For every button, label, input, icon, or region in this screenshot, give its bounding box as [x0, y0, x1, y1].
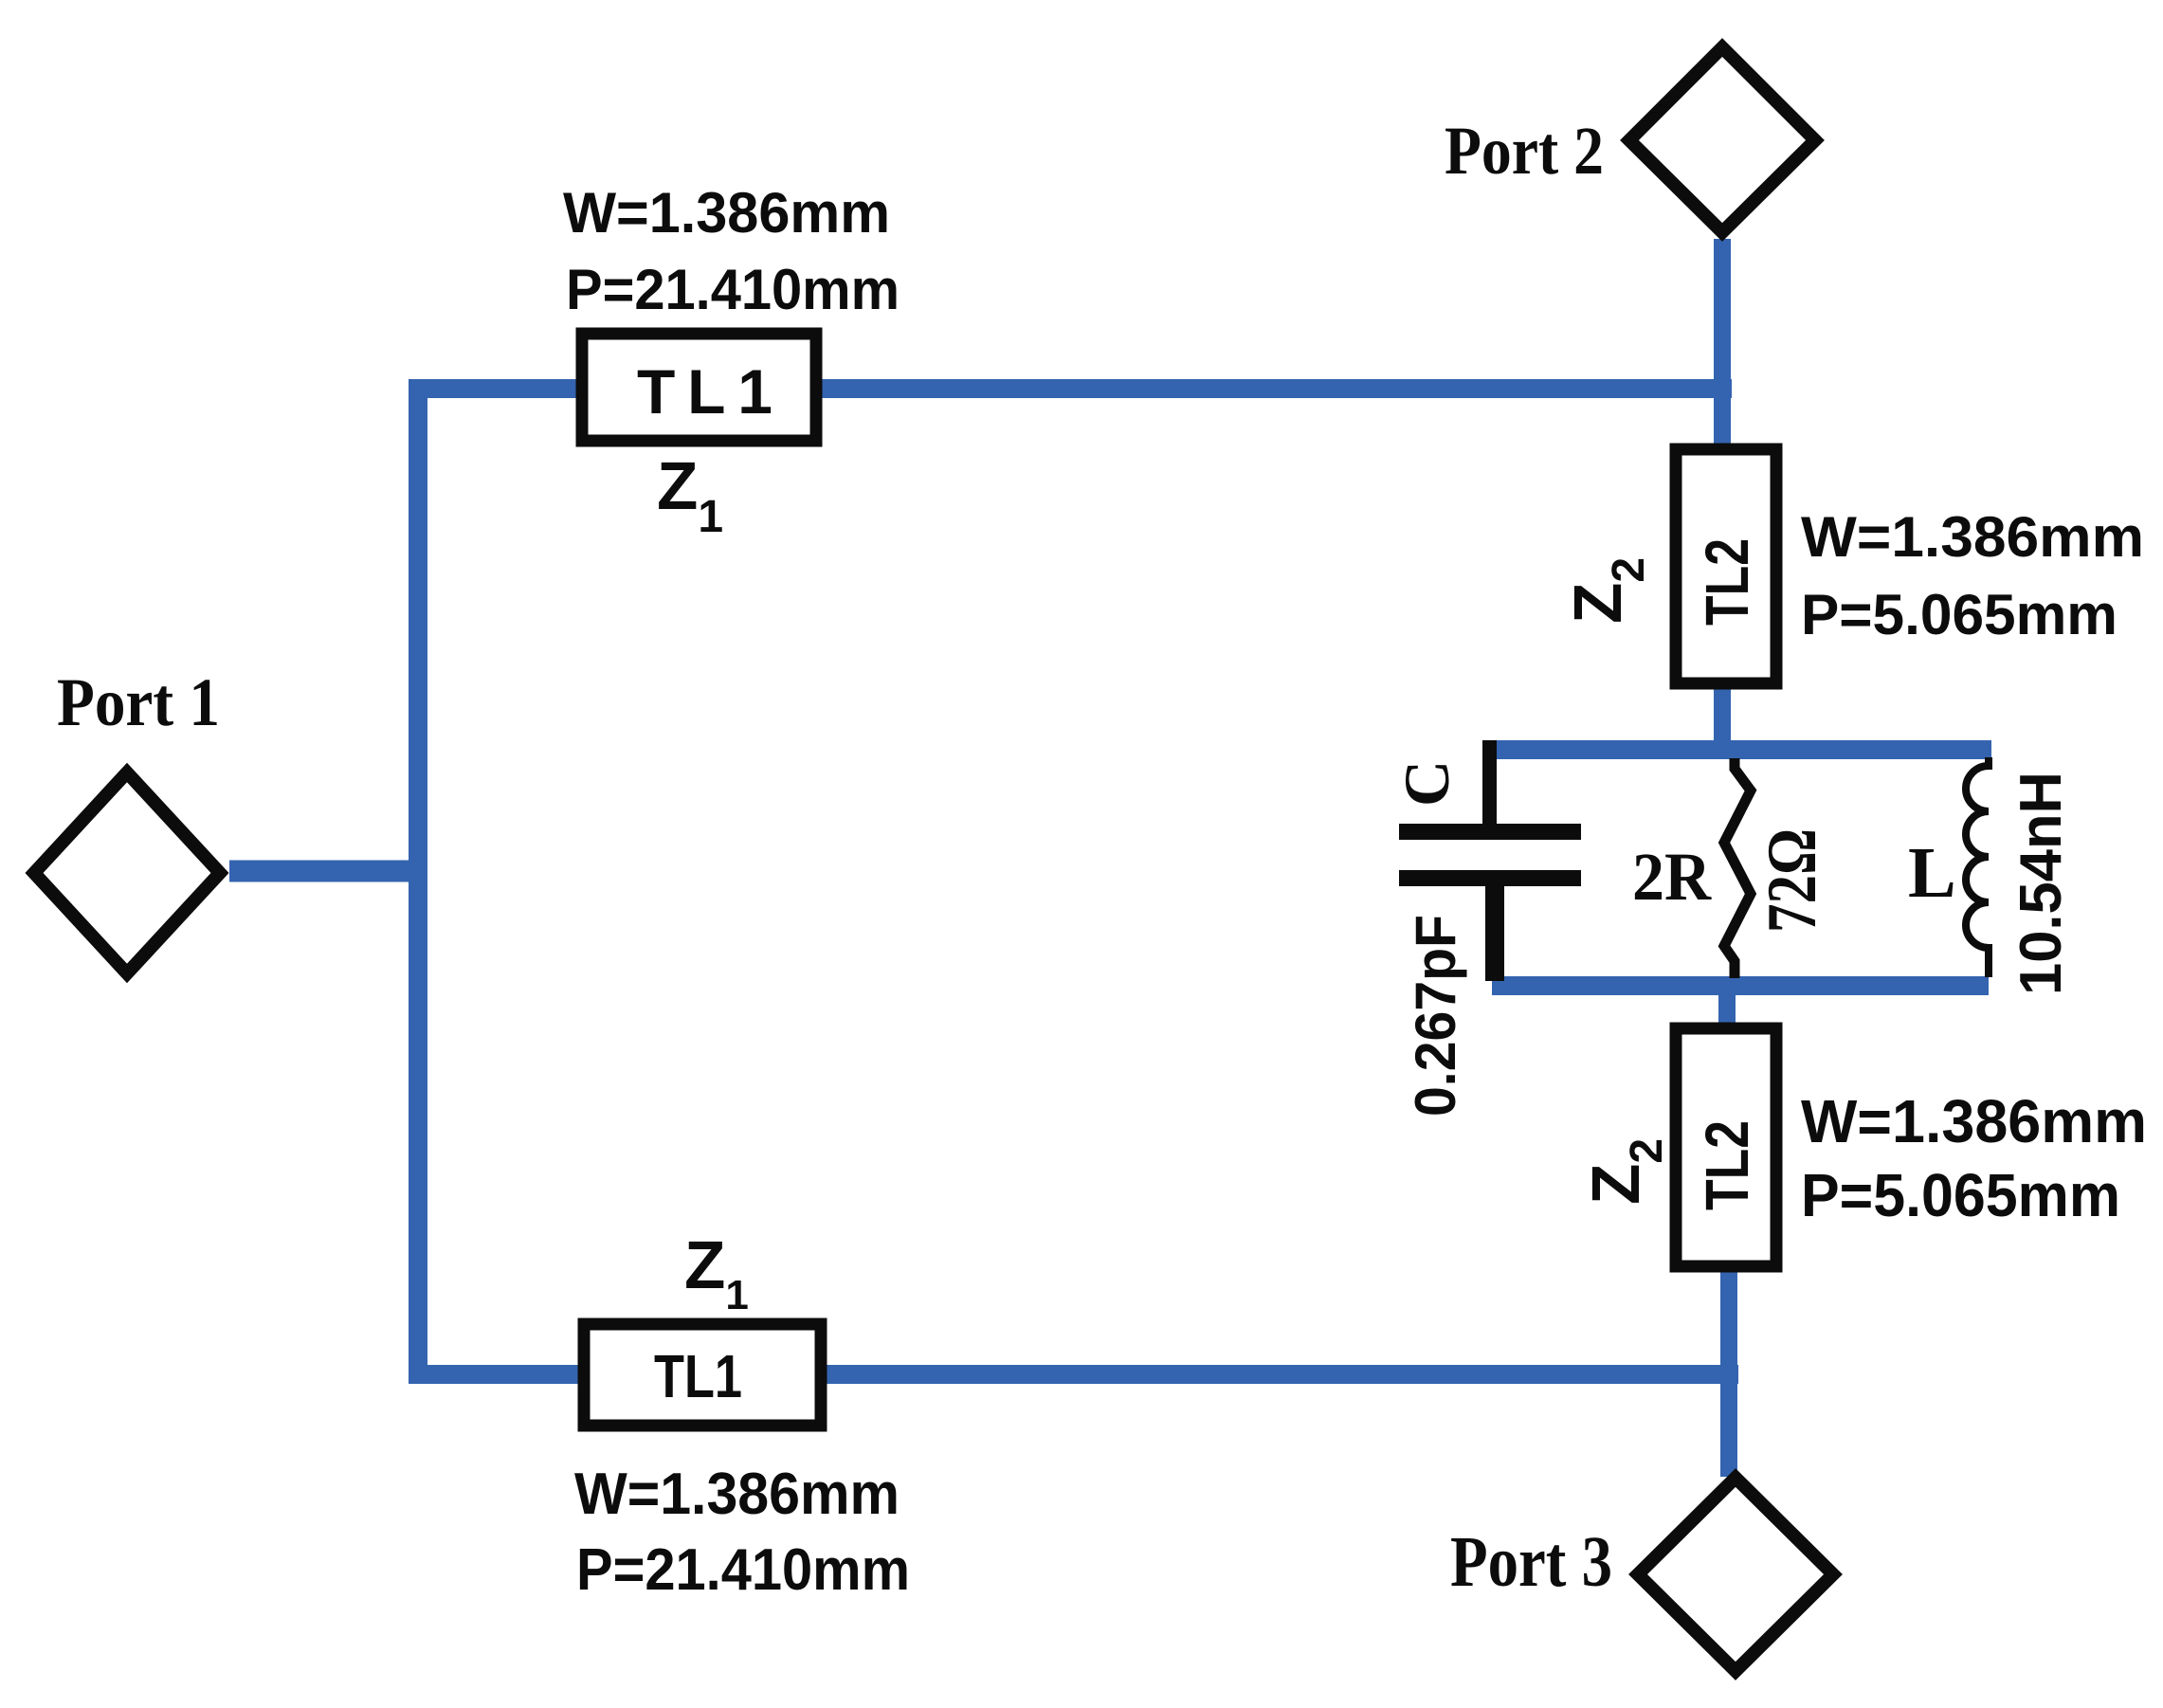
wire: RLC top bus [1494, 740, 1991, 759]
capacitor C1 top lead [1482, 740, 1497, 824]
wire: top horizontal from splitter to Port2 branch [409, 379, 1732, 398]
port 1 diamond [34, 772, 220, 973]
svg-text:0.267pF: 0.267pF [1404, 915, 1467, 1117]
port 3 diamond [1638, 1478, 1833, 1671]
svg-text:72Ω: 72Ω [1754, 828, 1831, 933]
svg-text:2R: 2R [1632, 839, 1712, 915]
wire: TL2 bottom down to Port 3 [1720, 1270, 1737, 1477]
svg-text:Port 1: Port 1 [57, 664, 220, 740]
svg-text:TL1: TL1 [654, 1342, 742, 1410]
svg-text:TL1: TL1 [637, 356, 772, 427]
wire: Port 2 down to TL2 [1714, 239, 1731, 455]
svg-text:P=21.410mm: P=21.410mm [566, 258, 900, 321]
capacitor C1 top plate [1399, 824, 1581, 840]
transmission line TL1 (bottom) box [584, 1324, 821, 1426]
wire: Port 1 feed [229, 861, 427, 882]
port 2 diamond [1629, 47, 1815, 232]
inductor L coil [1966, 757, 1989, 977]
svg-text:P=21.410mm: P=21.410mm [576, 1537, 910, 1603]
svg-text:W=1.386mm: W=1.386mm [1801, 505, 2144, 569]
svg-text:P=5.065mm: P=5.065mm [1801, 583, 2118, 646]
svg-text:P=5.065mm: P=5.065mm [1801, 1161, 2120, 1229]
svg-text:TL2: TL2 [1693, 1120, 1761, 1210]
transmission line TL1 (top) box [582, 334, 816, 441]
svg-text:10.54nH: 10.54nH [2008, 772, 2074, 995]
wire: left vertical splitter branch [409, 379, 427, 1384]
svg-text:Port 3: Port 3 [1450, 1522, 1612, 1602]
transmission line TL2 (top) box [1676, 449, 1776, 683]
svg-text:Port 2: Port 2 [1445, 113, 1604, 189]
svg-text:TL2: TL2 [1693, 538, 1761, 626]
svg-text:L: L [1908, 833, 1956, 913]
svg-text:W=1.386mm: W=1.386mm [574, 1462, 900, 1527]
wire: bottom bus to TL2 bottom [1718, 982, 1736, 1033]
resistor 2R zigzag [1724, 758, 1751, 978]
wire: RLC bottom bus [1492, 976, 1989, 995]
transmission line TL2 (bottom) box [1676, 1028, 1776, 1266]
wire: bottom horizontal from splitter to Port3 branch [409, 1365, 1738, 1384]
svg-text:C: C [1390, 760, 1463, 807]
svg-text:W=1.386mm: W=1.386mm [1801, 1087, 2147, 1155]
capacitor C1 bottom lead [1485, 886, 1504, 981]
svg-text:W=1.386mm: W=1.386mm [563, 181, 890, 245]
capacitor C1 bottom plate [1399, 870, 1581, 886]
wire: TL2 top to RLC top bus [1714, 687, 1731, 754]
